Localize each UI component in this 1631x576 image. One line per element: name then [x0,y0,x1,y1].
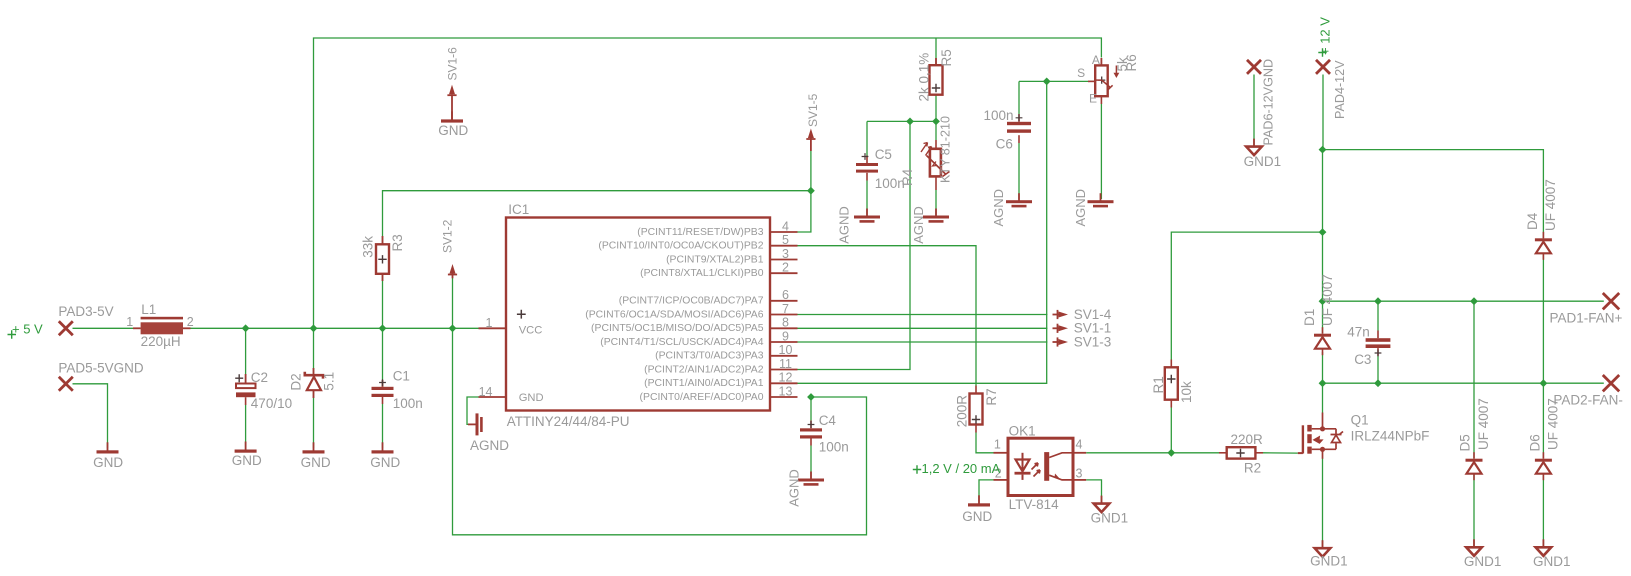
wire SV1-5 node to pin4 [798,191,811,232]
svg-text:8: 8 [782,316,789,330]
junction 12V-R1 [1319,228,1327,236]
connector pin SV1-6 [449,85,455,95]
svg-text:C5: C5 [875,147,892,162]
svg-text:2: 2 [187,315,194,329]
svg-text:(PCINT5/OC1B/MISO/DO/ADC5)PA5: (PCINT5/OC1B/MISO/DO/ADC5)PA5 [591,323,764,334]
wire +5V top loop [314,38,1102,328]
wire C1 branch [382,328,384,387]
svg-text:S: S [1077,66,1085,80]
ground GND1 of PAD6 [1246,147,1262,156]
svg-text:11: 11 [779,357,792,371]
wire FAN+ net [1323,300,1604,302]
svg-text:C1: C1 [393,368,410,383]
svg-text:1: 1 [486,316,493,330]
connector pin SV1-3 [1059,339,1069,345]
svg-text:(PCINT3/T0/ADC3)PA3: (PCINT3/T0/ADC3)PA3 [655,351,764,362]
svg-text:PAD1-FAN+: PAD1-FAN+ [1550,310,1623,325]
svg-text:10: 10 [779,343,793,357]
wire C3 bottom [1377,348,1379,356]
wire PAD6 to GND1 [1253,75,1255,146]
ground GND of OK1 pin2 [968,503,990,506]
analog ground AGND of R6 [1088,200,1114,203]
svg-text:14: 14 [479,385,493,399]
resistor R1 10k [1165,367,1178,399]
wire wiper node to R6 [1019,80,1095,82]
svg-text:AGND: AGND [837,206,852,244]
junction sensor-R4 [932,118,940,126]
svg-text:(PCINT2/AIN1/ADC2)PA2: (PCINT2/AIN1/ADC2)PA2 [644,364,764,375]
LED inside OK1 [1022,453,1024,472]
svg-text:KTY 81-210: KTY 81-210 [938,116,952,183]
wire D6 branch [1542,383,1544,458]
capacitor C3 47n [1366,338,1391,342]
svg-text:200R: 200R [955,395,970,428]
svg-text:13: 13 [779,384,793,398]
svg-text:GND: GND [438,123,468,138]
wire R1 top to +12V [1170,360,1172,368]
svg-text:UF 4007: UF 4007 [1320,274,1335,326]
svg-text:AGND: AGND [991,189,1006,227]
optocoupler OK1 LTV-814 box [1008,438,1073,495]
wire pin9 to SV1-3 [798,341,1048,343]
connector pin SV1-5 [808,129,814,139]
svg-text:(PCINT6/OC1A/SDA/MOSI/ADC6)PA6: (PCINT6/OC1A/SDA/MOSI/ADC6)PA6 [585,309,763,320]
junction 12V-D4 branch [1319,146,1327,154]
wire pin11 to sensor node [798,121,911,369]
svg-text:R6: R6 [1124,54,1139,71]
junction SV1-5 node [807,187,815,195]
analog ground AGND of C6 [1006,200,1032,203]
op IC1 ATTINY24/44/84 box [506,218,770,411]
connector pin SV1-4 [1059,312,1069,318]
svg-text:SV1-6: SV1-6 [446,47,460,81]
wire R3 top to SV1-5 node [383,191,811,245]
net label +12V [1318,48,1326,56]
svg-text:GND: GND [519,392,544,404]
ground GND of PAD5 [97,450,119,453]
svg-text:1,2 V / 20 mA: 1,2 V / 20 mA [922,461,1001,476]
pin 6 of IC1 (PCINT7/ICP/OC0B/ADC7)PA7 [770,300,798,302]
svg-text:D1: D1 [1302,309,1317,326]
svg-text:L1: L1 [141,302,156,317]
pin 13 of IC1 (PCINT0/AREF/ADC0)PA0 [770,396,798,398]
svg-text:C4: C4 [819,413,837,428]
wire pin7 to SV1-4 [798,314,1048,316]
svg-text:D5: D5 [1457,434,1472,451]
net label 1,2V/20mA [913,465,921,473]
resistor R7 200R [970,394,983,425]
svg-text:GND: GND [301,455,331,470]
pin VCC stub [479,327,507,329]
svg-text:33k: 33k [361,236,376,258]
svg-text:5: 5 [782,233,789,247]
wire D1 cathode [1322,301,1324,333]
wire R7 to OK1 pin1 [975,425,977,433]
capacitor C4 [800,428,822,431]
svg-text:(PCINT4/T1/SCL/USCK/ADC4)PA4: (PCINT4/T1/SCL/USCK/ADC4)PA4 [600,337,763,348]
diode D5 UF4007 [1466,459,1483,462]
wire D2 to GND [313,391,315,448]
svg-text:(PCINT10/INT0/OC0A/CKOUT)PB2: (PCINT10/INT0/OC0A/CKOUT)PB2 [598,241,763,252]
svg-text:UF 4007: UF 4007 [1476,398,1491,450]
svg-text:GND: GND [370,455,400,470]
svg-text:IC1: IC1 [508,202,529,217]
svg-text:220µH: 220µH [141,334,181,349]
junction rail-C2 [242,324,250,332]
svg-text:PAD5-5VGND: PAD5-5VGND [58,360,144,375]
svg-text:D4: D4 [1525,212,1540,230]
svg-text:220R: 220R [1231,432,1264,447]
svg-text:(PCINT9/XTAL2)PB1: (PCINT9/XTAL2)PB1 [666,254,764,265]
pin 11 of IC1 (PCINT2/AIN1/ADC2)PA2 [770,369,798,371]
junction rail-R3-C1 [379,324,387,332]
resistor R5 2k 0.1% [930,65,943,95]
wire Q1 source to GND1 [1322,459,1324,547]
svg-text:UF 4007: UF 4007 [1543,179,1558,231]
svg-text:ATTINY24/44/84-PU: ATTINY24/44/84-PU [507,414,630,429]
wire C6 top to wiper node [1018,81,1020,114]
pin 4 of IC1 (PCINT11/RESET/DW)PB3 [770,231,798,233]
resistor R2 220R [1227,447,1256,458]
svg-text:SV1-5: SV1-5 [806,93,820,127]
svg-text:1: 1 [126,315,133,329]
svg-text:4: 4 [1076,438,1083,452]
svg-text:GND: GND [93,455,123,470]
pad PAD3-5V [59,321,73,335]
svg-text:AGND: AGND [470,438,509,453]
svg-text:AGND: AGND [786,469,801,507]
svg-text:(PCINT1/AIN0/ADC1)PA1: (PCINT1/AIN0/ADC1)PA1 [644,378,764,389]
wire D6 to GND1 [1542,474,1544,547]
svg-text:GND1: GND1 [1464,554,1502,569]
diode D4 UF4007 [1535,238,1552,241]
svg-text:3: 3 [782,247,789,261]
pin 9 of IC1 (PCINT4/T1/SCL/USCK/ADC4)PA4 [770,341,798,343]
wire R4 top [935,121,937,140]
wire D1 anode to drain node [1322,352,1324,383]
svg-text:D6: D6 [1527,434,1542,451]
analog ground AGND of C4 [798,479,824,482]
junction FAN--C3 [1374,379,1382,387]
junction FAN--D4-D6 [1540,379,1548,387]
wire D4 branch [1323,150,1544,239]
wire C5 top [866,121,868,155]
svg-text:GND1: GND1 [1091,510,1129,525]
wire C4 to AGND [810,438,812,446]
junction rail-D2 [310,324,318,332]
svg-text:C6: C6 [996,136,1013,151]
svg-text:GND1: GND1 [1244,154,1282,169]
pin 8 of IC1 (PCINT5/OC1B/MISO/DO/ADC5)PA5 [770,327,798,329]
connector pin SV1-2 [450,264,456,274]
svg-text:470/10: 470/10 [251,396,292,411]
svg-text:100n: 100n [984,108,1014,123]
svg-text:R2: R2 [1244,461,1261,476]
junction drain-FAN- [1319,379,1327,387]
svg-text:PAD4-12V: PAD4-12V [1333,60,1347,119]
wire C3 top [1377,301,1379,330]
svg-text:OK1: OK1 [1009,423,1036,438]
svg-text:SV1-3: SV1-3 [1074,334,1112,349]
ground GND1 of Q1 [1315,548,1331,557]
junction rail-SV1-2 [449,324,457,332]
svg-text:100n: 100n [819,440,849,455]
diode D6 UF4007 [1535,459,1552,462]
wire pin8 to SV1-1 [798,327,1048,329]
pin GND stub [479,396,507,398]
svg-text:GND: GND [232,453,262,468]
svg-text:SV1-2: SV1-2 [440,219,454,253]
capacitor C1 [372,387,394,390]
svg-text:R1: R1 [1151,376,1166,393]
wire FAN- net [1323,382,1604,384]
svg-text:3: 3 [1076,466,1083,480]
wire R3 bottom [382,274,384,329]
wire R4 bottom to AGND [935,190,937,215]
wire OK1 pin2 to GND [979,480,994,502]
wire AREF loop pin13 [453,328,867,535]
resistor R4 KTY 81-210 sensor [930,149,941,177]
junction 12V-FAN+ [1319,297,1327,305]
wire +5V rail [73,327,141,329]
pad PAD2-FAN- [1603,375,1619,391]
svg-text:R7: R7 [984,388,999,405]
junction R1 bottom [1167,449,1175,457]
wire drain [1322,383,1324,412]
junction pin13-C4 [807,393,815,401]
wire pin14 to AGND [467,397,479,424]
svg-text:AGND: AGND [1073,189,1088,227]
wire D5 to GND1 [1473,474,1475,547]
wire pin12 to R6 wiper node [798,81,1047,383]
wire C4 branch [810,397,812,421]
junction FAN+-D5 [1470,297,1478,305]
pad PAD5-5VGND [59,377,73,391]
pin 5 of IC1 (PCINT10/INT0/OC0A/CKOUT)PB2 [770,245,798,247]
inductor L1 [141,317,183,320]
pad PAD4-12V [1316,60,1330,74]
svg-text:4: 4 [782,219,789,233]
pad PAD1-FAN+ [1603,293,1619,309]
net label +5V [8,330,17,339]
ground GND1 of D6 [1536,547,1552,556]
svg-text:7: 7 [782,302,789,316]
svg-text:LTV-814: LTV-814 [1009,497,1060,512]
svg-text:E: E [1089,92,1097,106]
svg-text:(PCINT11/RESET/DW)PB3: (PCINT11/RESET/DW)PB3 [637,227,763,238]
wire OK1 pin4 to R2 [1086,452,1219,454]
phototransistor inside OK1 [1044,452,1049,481]
svg-text:2: 2 [782,261,789,275]
svg-text:SV1-4: SV1-4 [1074,307,1112,322]
wire C2 to GND [245,397,247,405]
pin 12 of IC1 (PCINT1/AIN0/ADC1)PA1 [770,382,798,384]
svg-text:10k: 10k [1179,381,1194,403]
svg-text:PAD6-12VGND: PAD6-12VGND [1262,59,1276,146]
svg-text:(PCINT8/XTAL1/CLKI)PB0: (PCINT8/XTAL1/CLKI)PB0 [640,268,764,279]
svg-text:A: A [1092,53,1100,67]
capacitor C5 [856,163,878,166]
svg-text:AGND: AGND [911,206,926,244]
analog ground AGND of R4 [923,216,949,219]
wire D4 to FAN- node [1542,254,1544,383]
svg-text:GND1: GND1 [1310,554,1348,569]
svg-text:PAD3-5V: PAD3-5V [58,304,113,319]
wire sensor node [867,120,936,122]
wire +12V column [1322,75,1324,150]
svg-text:9: 9 [782,329,789,343]
svg-text:R5: R5 [939,49,954,66]
wire R5 bottom [935,95,937,122]
svg-text:1: 1 [994,438,1001,452]
ground GND1 of D5 [1466,547,1482,556]
wire C2 branch [245,328,247,383]
svg-text:GND1: GND1 [1533,554,1571,569]
svg-text:5.1: 5.1 [322,372,337,391]
pin 3 of OK1 [1073,479,1086,481]
svg-text:Q1: Q1 [1351,413,1369,428]
pin 2 of IC1 (PCINT8/XTAL1/CLKI)PB0 [770,272,798,274]
svg-text:R4: R4 [900,168,915,186]
ground GND1 of OK1 pin3 [1094,504,1110,512]
pin 4 of OK1 [1073,452,1086,454]
analog ground AGND of pin14 (rotated) [476,413,479,435]
wire C1 to GND [382,397,384,405]
junction wiper node [1043,78,1051,86]
svg-text:C3: C3 [1354,352,1371,367]
svg-text:PAD2-FAN-: PAD2-FAN- [1553,393,1623,408]
svg-text:12: 12 [779,371,793,385]
wire C6 to AGND [1018,135,1020,143]
ground GND of C2 [235,450,257,453]
pin 2 of OK1 [994,479,1009,481]
pad PAD6-12VGND [1247,60,1261,74]
resistor R3 33k [376,244,389,273]
svg-text:IRLZ44NPbF: IRLZ44NPbF [1351,429,1430,444]
svg-text:2k 0,1%: 2k 0,1% [917,53,932,102]
transistor Q1 IRLZ44NPbF mosfet [1298,452,1303,454]
capacitor C6 [1007,122,1031,125]
wire SV1-5 stub [810,151,812,191]
wire R5 top to +5V [935,38,937,65]
svg-text:(PCINT0/AREF/ADC0)PA0: (PCINT0/AREF/ADC0)PA0 [640,392,764,403]
trimmer R6 5k [1095,65,1108,96]
svg-text:C2: C2 [251,370,268,385]
wire OK1 pin3 to GND1 [1086,480,1101,503]
svg-text:(PCINT7/ICP/OC0B/ADC7)PA7: (PCINT7/ICP/OC0B/ADC7)PA7 [619,296,764,307]
svg-text:6: 6 [782,288,789,302]
svg-text:R3: R3 [390,234,405,251]
ground GND of D2 [303,450,325,453]
wire pin5 to R7 [798,246,977,386]
svg-text:100n: 100n [393,396,423,411]
wire D2 branch [313,328,315,375]
svg-text:47n: 47n [1347,325,1370,340]
wire D5 from FAN+ [1473,301,1475,458]
ground GND of C1 [372,450,394,453]
wire C5 to AGND [866,173,868,181]
wire R1 bottom [1170,400,1172,408]
wire R2 to Q1 gate [1255,452,1263,454]
analog ground AGND of C5 [854,216,880,219]
diode D1 UF4007 flyback [1314,334,1331,337]
wire PAD5 to GND [73,384,108,448]
capacitor C2 electrolytic [235,374,243,382]
pin 3 of IC1 (PCINT9/XTAL2)PB1 [770,259,798,261]
pin 1 of OK1 [994,452,1009,454]
wire SV1-2 to rail [452,278,454,328]
connector pin SV1-1 [1059,325,1069,331]
svg-text:GND: GND [962,509,992,524]
junction sensor-pin11 [906,118,914,126]
svg-text:VCC: VCC [519,324,543,336]
junction FAN+-C3 [1374,297,1382,305]
pin 10 of IC1 (PCINT3/T0/ADC3)PA3 [770,355,798,357]
pin 7 of IC1 (PCINT6/OC1A/SDA/MOSI/ADC6)PA6 [770,314,798,316]
ground GND of SV1-6 [441,119,463,122]
diode D2 zener 5.1 [305,372,323,379]
svg-text:D2: D2 [288,373,303,390]
svg-text:+ 12 V: + 12 V [1318,17,1333,55]
wire R6 bottom to AGND [1100,96,1102,104]
svg-text:+ 5 V: + 5 V [12,322,43,337]
